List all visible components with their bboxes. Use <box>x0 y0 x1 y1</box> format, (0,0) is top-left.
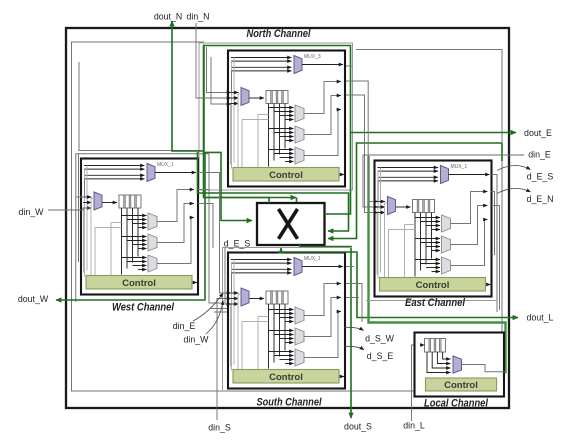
svg-text:d_E_S: d_E_S <box>527 172 554 182</box>
south gray ring <box>223 248 353 391</box>
crossbar south input / dout_L wire <box>281 248 518 318</box>
north demux C <box>295 147 304 164</box>
west MUX_1 output wire <box>155 172 196 174</box>
local channel block outline <box>415 333 505 397</box>
din_E wire <box>363 155 524 207</box>
south input mux output <box>250 298 265 300</box>
north control unit <box>233 168 339 182</box>
svg-text:d_S_E: d_S_E <box>367 351 394 361</box>
svg-text:d_E_S: d_E_S <box>224 239 251 249</box>
south left wire stub 2 <box>214 311 227 313</box>
south output stub 1 <box>346 266 354 268</box>
west FIFO buffer <box>119 195 141 208</box>
svg-text:MUX_1: MUX_1 <box>304 256 321 262</box>
south input mux wires <box>230 292 239 294</box>
west left feed wire <box>86 166 88 271</box>
left margin wire <box>79 62 201 151</box>
dout_E wire from crossbar <box>325 133 351 215</box>
west output stub <box>198 204 213 249</box>
north fan feed 1 <box>207 47 232 93</box>
south demux A <box>295 307 304 324</box>
dout_S wire <box>300 245 351 419</box>
east demux A <box>442 215 451 232</box>
svg-text:Control: Control <box>416 280 450 291</box>
east channel block outline <box>375 161 492 297</box>
svg-text:Control: Control <box>444 380 478 391</box>
svg-text:din_W: din_W <box>184 335 210 345</box>
south demux A output <box>304 284 341 316</box>
din_N wire <box>196 23 231 98</box>
west demux A output <box>157 190 194 222</box>
west input mux <box>94 192 102 210</box>
south control feedback wires <box>237 295 239 370</box>
north control feedback wires <box>237 94 239 168</box>
west input mux output <box>103 202 118 204</box>
crossbar switch X <box>257 203 325 245</box>
north left bus wire lower <box>230 104 232 165</box>
west output mux MUX_1 <box>147 164 155 182</box>
west output wire to south <box>198 173 231 294</box>
dout_N wire <box>204 198 270 204</box>
north output wire to east 2 <box>346 95 378 213</box>
east control unit <box>380 278 486 292</box>
west-side gray ring right <box>209 154 221 303</box>
west left bus wire <box>84 179 86 198</box>
d_E_N pointer <box>497 188 531 193</box>
svg-text:MUX_1: MUX_1 <box>451 164 468 170</box>
east input mux output <box>396 206 411 208</box>
east control output arrow <box>487 284 491 286</box>
south demux C output <box>304 312 341 358</box>
east input mux wires <box>377 201 386 203</box>
west demux C <box>148 255 157 272</box>
svg-text:din_S: din_S <box>208 423 231 433</box>
south buffer output wires <box>268 304 270 369</box>
east MUX_1 output wire <box>449 174 490 176</box>
din_W south pointer <box>206 301 223 335</box>
south left bus wire <box>231 273 233 294</box>
east demux C output <box>451 220 488 266</box>
svg-text:dout_S: dout_S <box>344 422 372 432</box>
east FIFO buffer <box>413 200 435 213</box>
north MUX_3 input wires <box>231 57 292 59</box>
north fan feed 3 <box>211 57 231 104</box>
d_E_S pointer <box>497 165 531 170</box>
south input mux <box>241 288 249 306</box>
west control feedback wires <box>90 199 92 276</box>
svg-text:din_E: din_E <box>528 150 551 160</box>
east demux B <box>442 236 451 253</box>
din_W wire <box>48 208 90 210</box>
inner routing ring wire <box>72 42 503 391</box>
south output stub 2 <box>346 284 362 323</box>
north left feed wire 2 <box>231 61 233 168</box>
east output stub 1 <box>492 175 498 313</box>
svg-text:dout_W: dout_W <box>18 294 49 304</box>
south control output arrow <box>340 376 344 378</box>
north output wire to east <box>346 81 378 202</box>
crossbar east input wire 2 <box>328 143 502 239</box>
svg-text:din_N: din_N <box>187 12 210 22</box>
north FIFO buffer <box>266 91 288 104</box>
left margin wire 2 <box>78 154 80 262</box>
west input mux wires <box>83 196 92 198</box>
south demux C <box>295 349 304 366</box>
east demux A output <box>451 192 488 224</box>
south left feed wire 2 <box>231 263 233 370</box>
east left feed wire <box>380 168 382 273</box>
local buffer wires <box>427 352 451 373</box>
local FIFO input arrow <box>420 344 425 346</box>
south output mux MUX_1 <box>294 258 302 276</box>
south FIFO buffer <box>266 291 288 304</box>
svg-text:West Channel: West Channel <box>112 302 175 314</box>
north demux C output <box>304 110 341 156</box>
svg-text:d_E_N: d_E_N <box>527 194 554 204</box>
east left bus wire <box>377 181 379 202</box>
north buffer output wires <box>268 104 270 167</box>
west MUX_1 input wires <box>84 165 145 167</box>
north channel block outline <box>228 51 345 187</box>
svg-text:dout_E: dout_E <box>524 128 552 138</box>
west demux A <box>148 213 157 230</box>
west demux C output <box>157 218 194 264</box>
north demux B output <box>304 96 341 135</box>
east demux B output <box>451 206 488 245</box>
north input mux output <box>250 97 265 99</box>
south demux B <box>295 328 304 345</box>
crossbar north input wire <box>204 46 297 198</box>
south channel block outline <box>228 253 345 389</box>
svg-text:Control: Control <box>122 278 156 289</box>
south output stub 3 <box>346 297 359 299</box>
svg-text:d_S_W: d_S_W <box>365 334 395 344</box>
west fan feed 1 <box>76 196 84 198</box>
west demux B output <box>157 204 194 243</box>
din_L wire <box>412 345 420 421</box>
svg-text:din_E: din_E <box>173 321 196 331</box>
west left bus wire lower <box>83 208 85 273</box>
local FIFO buffer <box>425 339 446 353</box>
south MUX_1 input wires <box>231 259 292 261</box>
north left feed wire <box>233 58 235 163</box>
north demux A <box>295 105 304 122</box>
south left feed wire <box>233 260 235 365</box>
west control output arrow <box>193 282 197 284</box>
outer router boundary <box>66 28 509 408</box>
east control feedback wires <box>384 203 386 278</box>
south control unit <box>233 370 339 384</box>
dout_W wire <box>56 152 205 300</box>
local mux output wire <box>462 365 506 372</box>
svg-text:Control: Control <box>269 372 303 383</box>
east demux C <box>442 257 451 274</box>
svg-text:din_L: din_L <box>403 421 425 431</box>
north demux A output <box>304 82 341 114</box>
svg-text:din_W: din_W <box>19 207 45 217</box>
west channel block outline <box>81 159 198 295</box>
east left feed wire 2 <box>377 171 379 278</box>
svg-text:dout_N: dout_N <box>154 12 182 22</box>
east output stub 2 <box>492 192 495 256</box>
east left bus wire lower <box>376 213 378 275</box>
svg-text:Local Channel: Local Channel <box>424 398 489 410</box>
north MUX_3 output wire <box>302 64 343 66</box>
north input mux wires <box>230 92 239 94</box>
north left bus wire <box>231 71 233 93</box>
d_S_E pointer <box>344 346 364 349</box>
north-side gray ring <box>199 43 353 190</box>
crossbar west input wire <box>204 152 252 220</box>
local mux <box>453 356 462 373</box>
east output stub 3 <box>492 206 500 311</box>
west gray ring <box>76 154 209 302</box>
d_S_W pointer <box>344 327 364 330</box>
south MUX_1 output wire <box>302 266 343 268</box>
north output stub <box>346 65 353 67</box>
west buffer output wires <box>121 208 123 275</box>
svg-text:MUX_3: MUX_3 <box>304 54 321 60</box>
north output mux MUX_3 <box>294 56 302 74</box>
din_E south pointer <box>193 293 223 321</box>
svg-text:dout_L: dout_L <box>527 313 554 323</box>
west control unit <box>86 276 192 290</box>
east input mux <box>388 197 396 215</box>
local control unit <box>426 378 497 391</box>
south left wire stub 1 <box>211 308 227 310</box>
east gray ring bottom <box>366 300 497 302</box>
svg-text:East Channel: East Channel <box>405 297 466 309</box>
south demux B output <box>304 298 341 337</box>
north input mux <box>241 88 249 106</box>
dout_E wire <box>204 46 516 133</box>
east buffer output wires <box>414 213 416 277</box>
svg-text:South Channel: South Channel <box>257 397 323 409</box>
north demux B <box>295 126 304 143</box>
east output mux MUX_1 <box>441 166 449 184</box>
north control output arrow <box>340 174 344 176</box>
west left feed wire 2 <box>84 169 86 276</box>
south input wire from top <box>225 248 231 304</box>
west demux B <box>148 234 157 251</box>
crossbar east input wire 1 <box>198 152 349 231</box>
din_S wire <box>217 299 231 421</box>
west output wire 2 <box>198 189 209 191</box>
svg-text:Control: Control <box>269 170 303 181</box>
svg-text:MUX_1: MUX_1 <box>157 162 174 168</box>
east MUX_1 input wires <box>378 167 439 169</box>
local ring wire <box>369 156 506 372</box>
south left bus wire lower <box>230 304 232 367</box>
svg-text:North Channel: North Channel <box>247 28 312 40</box>
